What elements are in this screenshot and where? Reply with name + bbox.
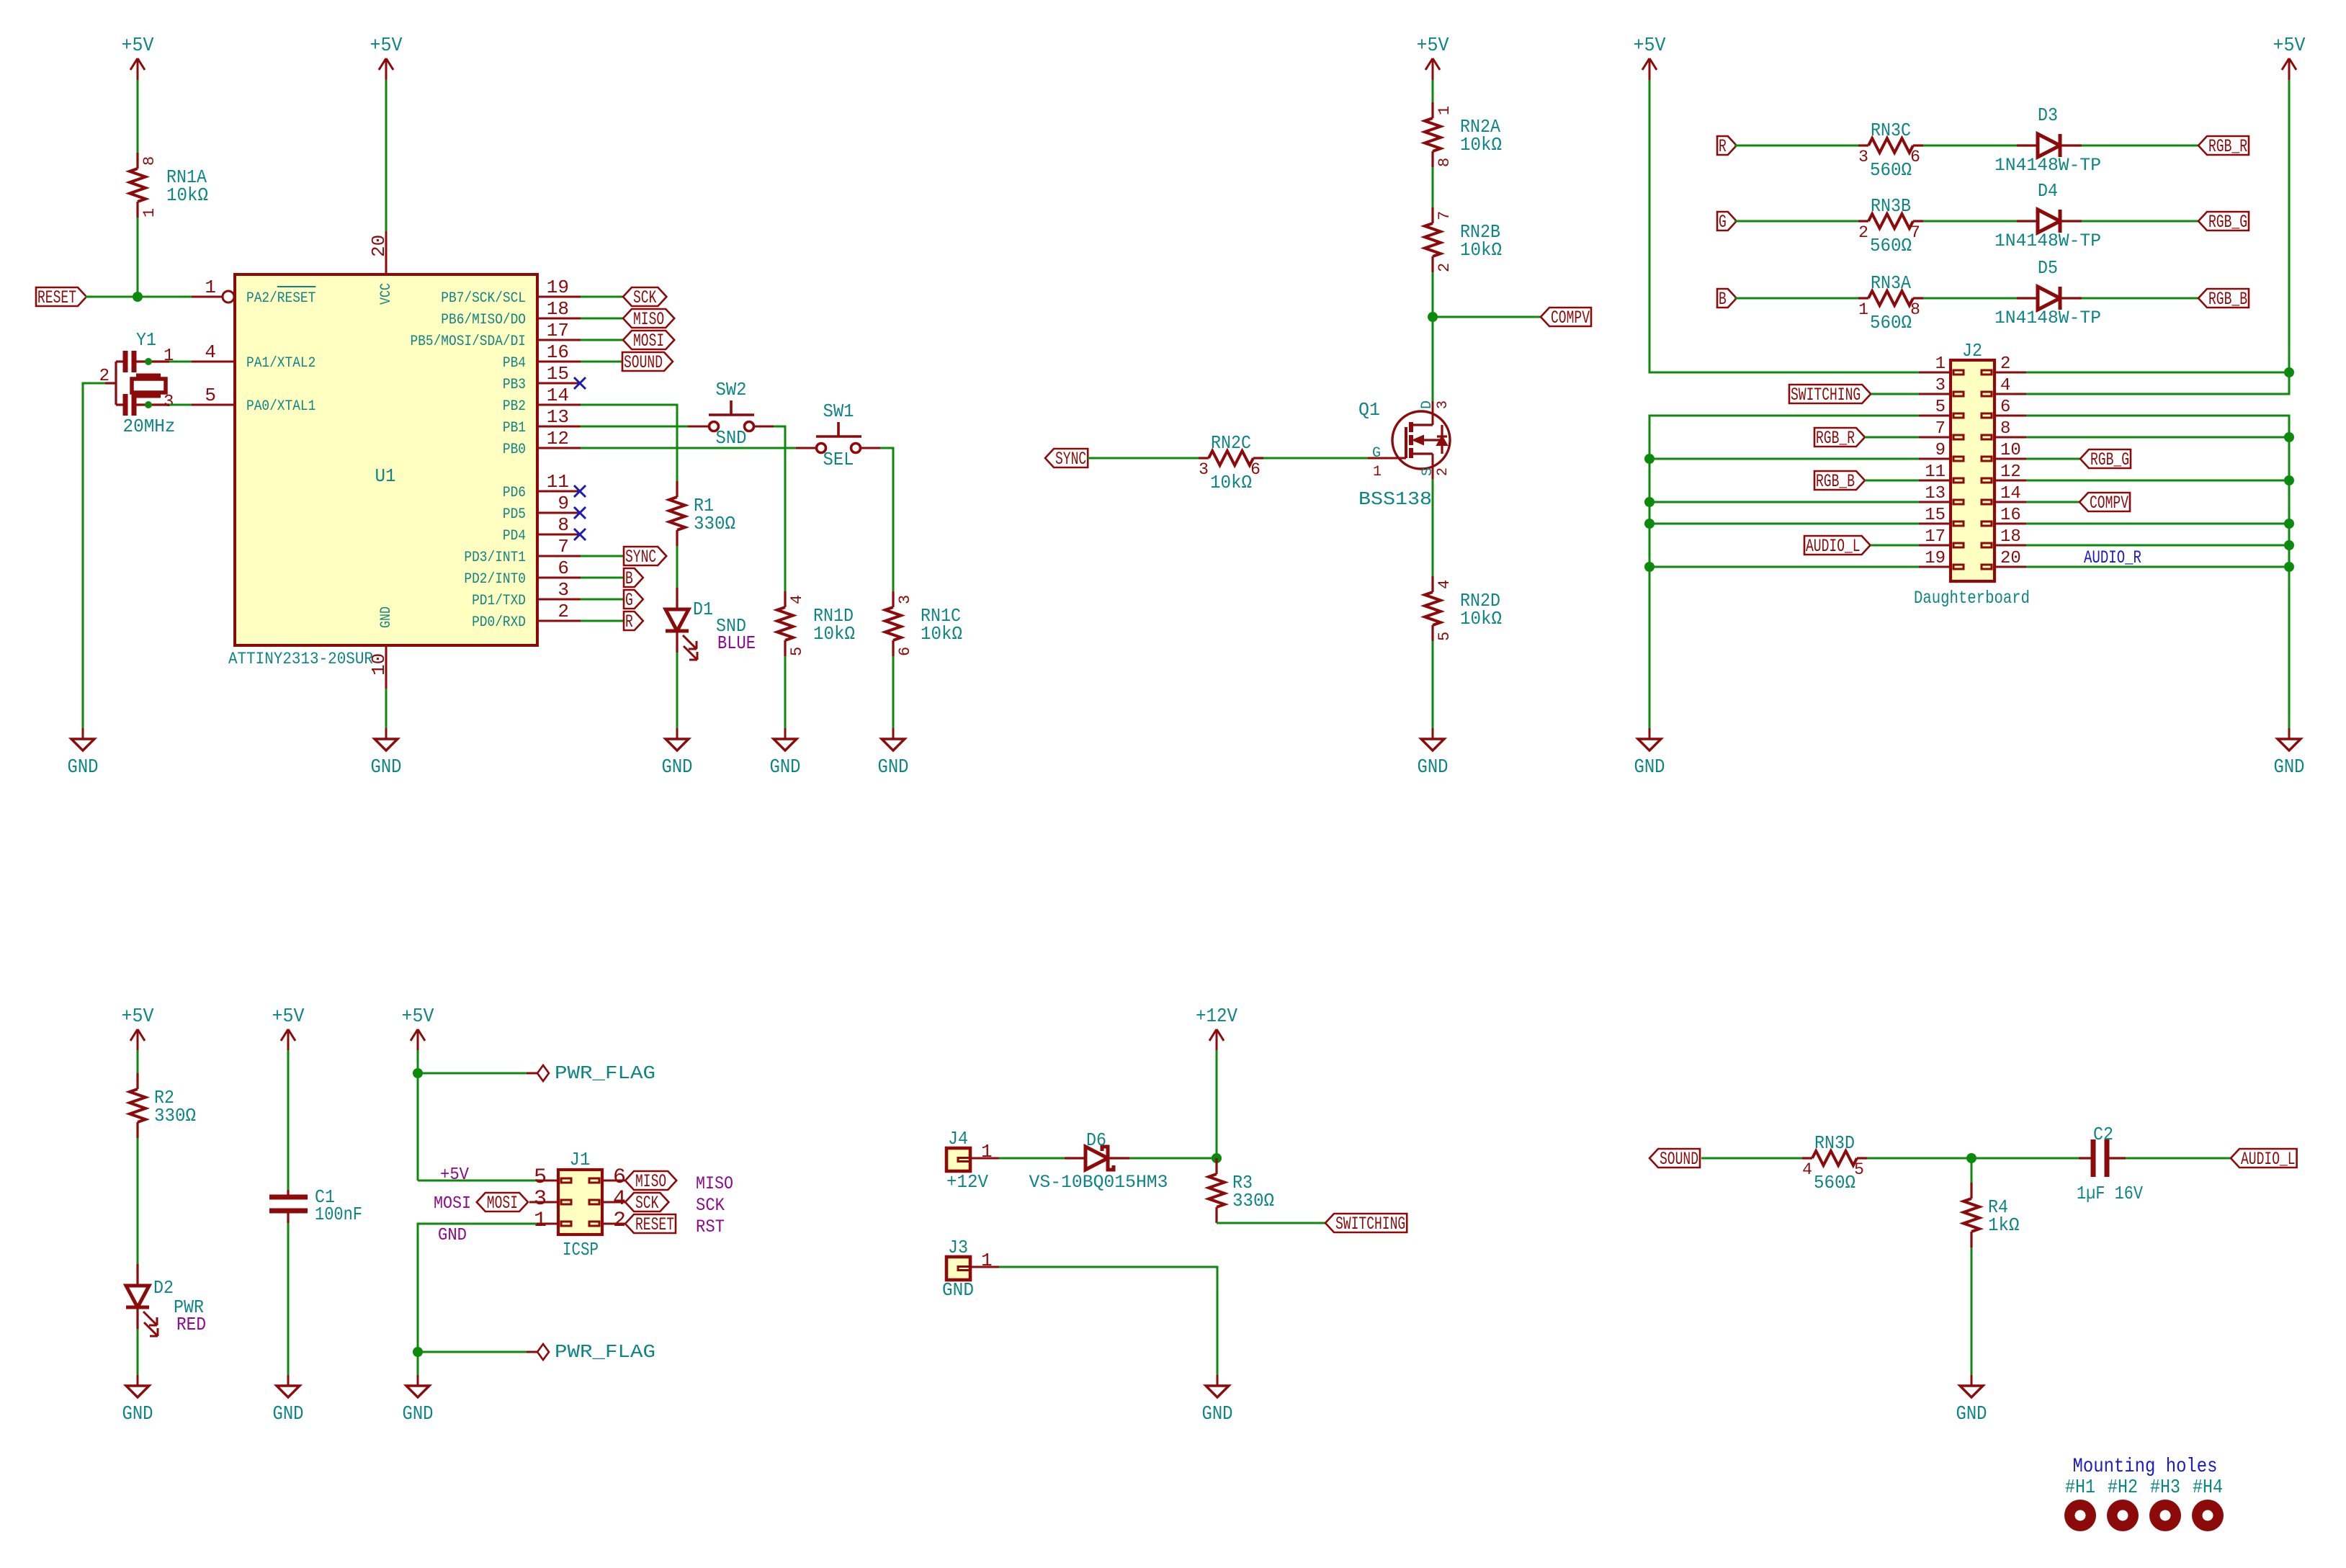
svg-text:3: 3	[1858, 148, 1868, 166]
svg-text:5: 5	[1436, 632, 1454, 641]
svg-text:+5V: +5V	[2273, 35, 2306, 57]
label COMPV	[1541, 308, 1591, 326]
svg-text:17: 17	[547, 320, 569, 341]
J2 pin 7	[1919, 436, 1951, 439]
U1 pin 15 PB3	[537, 382, 581, 385]
svg-text:U1: U1	[375, 465, 396, 487]
svg-text:4: 4	[788, 595, 806, 604]
svg-text:+12V: +12V	[1196, 1006, 1238, 1028]
svg-text:BSS138: BSS138	[1358, 488, 1432, 510]
capacitor C1 100nF	[287, 1190, 289, 1195]
wire to PWR_FLAG bottom	[418, 1351, 527, 1353]
svg-text:19: 19	[547, 277, 569, 298]
wire +12V to node	[1216, 1050, 1218, 1158]
wire Q1 source to RN2D	[1432, 479, 1434, 576]
svg-text:1N4148W-TP: 1N4148W-TP	[1994, 308, 2101, 328]
label SWITCHING	[1325, 1214, 1407, 1232]
ground	[137, 1375, 139, 1386]
svg-text:5: 5	[1854, 1160, 1864, 1179]
J2 pin 9	[1919, 458, 1951, 460]
label SOUND input	[1649, 1149, 1700, 1168]
svg-text:330Ω: 330Ω	[154, 1105, 196, 1126]
label B	[1717, 289, 1737, 308]
label MOSI at J1	[477, 1193, 528, 1211]
label R	[1717, 136, 1737, 155]
svg-text:10: 10	[2000, 441, 2021, 460]
svg-text:6: 6	[558, 557, 569, 579]
wire pin16 to bus	[2026, 523, 2289, 525]
svg-text:RN3C: RN3C	[1871, 120, 1911, 141]
wire PB2 down to R1	[581, 405, 677, 481]
svg-text:VCC: VCC	[378, 283, 395, 305]
wire crystal pin3 to U1 pin5	[169, 404, 192, 406]
U1 pin 19 PB7/SCK/SCL	[537, 296, 581, 298]
wire MISO	[581, 318, 623, 320]
label RGB_B	[2198, 289, 2249, 308]
ground	[2288, 728, 2291, 739]
svg-text:SYNC: SYNC	[1055, 449, 1086, 470]
wire D3 to RGB label	[2082, 145, 2198, 147]
svg-text:SCK: SCK	[633, 287, 656, 308]
svg-text:PD6: PD6	[503, 485, 526, 501]
svg-text:+5V: +5V	[402, 1006, 435, 1028]
svg-text:1: 1	[1373, 464, 1382, 480]
svg-text:D3: D3	[2038, 104, 2058, 126]
svg-text:RN3D: RN3D	[1814, 1132, 1855, 1154]
PWR_FLAG top	[537, 1065, 549, 1081]
svg-text:D6: D6	[1086, 1129, 1106, 1151]
wire RN2B to COMPV node	[1432, 272, 1434, 317]
svg-text:RGB_B: RGB_B	[1816, 471, 1855, 492]
svg-text:7: 7	[1935, 419, 1946, 439]
no-connect PD4	[574, 529, 586, 540]
label RESET at J1	[625, 1214, 676, 1233]
svg-text:3: 3	[1199, 460, 1209, 479]
svg-text:8: 8	[558, 514, 569, 536]
svg-text:RN3A: RN3A	[1871, 272, 1911, 294]
no-connect PD6	[574, 485, 586, 497]
wire C1 to GND	[287, 1223, 290, 1383]
ground	[385, 728, 388, 739]
svg-text:SEL: SEL	[823, 449, 854, 470]
wire +5V to C1	[287, 1050, 290, 1190]
svg-text:SOUND: SOUND	[1660, 1149, 1698, 1170]
ground	[1432, 728, 1434, 739]
wire J4 to D6	[999, 1157, 1065, 1160]
svg-text:5: 5	[788, 647, 806, 656]
ground	[417, 1375, 419, 1386]
connector J2 Daughterboard body	[1951, 360, 1994, 581]
wire +5V to RN1A	[137, 80, 139, 153]
J2 pin 2	[1994, 372, 2026, 374]
U1 pin 2 PD0/RXD	[537, 620, 581, 622]
svg-text:PB2: PB2	[503, 398, 526, 415]
svg-text:MOSI: MOSI	[633, 331, 664, 351]
wire COMPV	[1433, 316, 1541, 318]
svg-text:+5V: +5V	[1417, 35, 1450, 57]
svg-text:GND: GND	[378, 606, 395, 628]
wire SYNC to RN2C	[1088, 457, 1199, 460]
svg-text:GND: GND	[68, 757, 99, 779]
U1 pin 1 PA2/RESET	[192, 296, 222, 298]
J2 pin 12	[1994, 480, 2026, 482]
label RGB_R to pin7	[1814, 428, 1865, 447]
wire SOUND	[581, 361, 622, 363]
svg-text:PB6/MISO/DO: PB6/MISO/DO	[441, 312, 526, 328]
mounting hole H1	[2064, 1500, 2096, 1531]
svg-text:MISO: MISO	[633, 309, 664, 330]
label SYNC	[624, 547, 666, 565]
svg-text:D5: D5	[2038, 257, 2058, 279]
svg-text:GND: GND	[1634, 757, 1665, 779]
ground	[784, 728, 787, 739]
wire +5V to J1 pin5	[418, 1180, 537, 1182]
svg-text:RESET: RESET	[635, 1214, 674, 1235]
svg-text:PWR_FLAG: PWR_FLAG	[555, 1062, 655, 1084]
svg-text:PA1/XTAL2: PA1/XTAL2	[246, 355, 315, 372]
J2 pin 16	[1994, 523, 2026, 525]
svg-text:20MHz: 20MHz	[123, 416, 176, 437]
resistor R3 330	[1215, 1158, 1217, 1174]
svg-text:ATTINY2313-20SUR: ATTINY2313-20SUR	[228, 650, 373, 668]
svg-text:RGB_R: RGB_R	[2208, 136, 2247, 157]
svg-text:10kΩ: 10kΩ	[1460, 239, 1502, 261]
svg-text:2: 2	[2000, 354, 2010, 374]
svg-text:+12V: +12V	[946, 1171, 988, 1193]
U1 pin 10 GND	[385, 645, 388, 689]
J2 pin 14	[1994, 501, 2026, 503]
label MISO at J1	[625, 1171, 676, 1190]
U1 pin 18 PB6/MISO/DO	[537, 318, 581, 320]
svg-text:J2: J2	[1962, 340, 1982, 362]
svg-text:RST: RST	[696, 1217, 725, 1237]
svg-text:MISO: MISO	[635, 1171, 666, 1192]
wire RN1A to RESET node	[137, 218, 139, 297]
overline on RESET pin name	[277, 286, 316, 287]
resistor R4 1k	[1970, 1183, 1972, 1199]
J2 pin 3	[1919, 393, 1951, 395]
svg-text:GND: GND	[273, 1404, 304, 1425]
svg-text:ICSP: ICSP	[563, 1239, 599, 1260]
U1 pin 16 PB4	[537, 361, 581, 363]
U1 pin 20 VCC	[385, 231, 388, 274]
node PWR_FLAG bottom	[413, 1347, 423, 1357]
svg-text:RGB_G: RGB_G	[2208, 212, 2247, 233]
svg-text:RESET: RESET	[37, 287, 76, 308]
svg-text:7: 7	[1436, 211, 1454, 220]
connector J1 ICSP body	[558, 1170, 602, 1235]
svg-text:5: 5	[1935, 398, 1946, 417]
ground	[1217, 1375, 1219, 1386]
resistor RN2A 10k	[1431, 102, 1433, 118]
svg-text:1: 1	[1436, 106, 1454, 115]
svg-text:PD4: PD4	[503, 528, 526, 545]
svg-text:SW2: SW2	[716, 379, 747, 400]
svg-text:8: 8	[1910, 300, 1920, 319]
J2 pin 5	[1919, 415, 1951, 417]
label SYNC input	[1045, 449, 1088, 467]
svg-text:COMPV: COMPV	[1551, 308, 1590, 328]
svg-text:SWITCHING: SWITCHING	[1791, 385, 1861, 406]
svg-text:12: 12	[2000, 462, 2021, 482]
wire G	[581, 599, 624, 601]
svg-text:10kΩ: 10kΩ	[1210, 472, 1252, 493]
svg-text:10kΩ: 10kΩ	[813, 623, 855, 645]
svg-text:GND: GND	[122, 1404, 153, 1425]
svg-text:10kΩ: 10kΩ	[166, 184, 208, 206]
svg-text:RGB_B: RGB_B	[2208, 289, 2247, 310]
svg-text:#H3: #H3	[2150, 1477, 2180, 1499]
svg-text:GND: GND	[770, 757, 801, 779]
svg-text:PD1/TXD: PD1/TXD	[472, 593, 526, 609]
svg-text:J4: J4	[948, 1128, 968, 1150]
svg-text:PB4: PB4	[503, 355, 526, 372]
wire pin2 to bus	[2026, 372, 2289, 374]
svg-text:PD5: PD5	[503, 506, 526, 523]
svg-text:6: 6	[1910, 148, 1920, 166]
wire pin19 to bus	[1649, 566, 1919, 568]
label R	[624, 611, 643, 630]
ground	[676, 728, 679, 739]
J1 pin 5	[537, 1180, 558, 1182]
svg-text:17: 17	[1925, 527, 1946, 547]
wire pin8 to bus	[2026, 436, 2289, 439]
svg-text:B: B	[625, 568, 633, 589]
label RGB_R	[2198, 136, 2249, 155]
wire R2 to D2	[137, 1138, 139, 1264]
J1 pin 6	[602, 1180, 625, 1182]
svg-text:+5V: +5V	[1634, 35, 1667, 57]
ground	[287, 1375, 290, 1386]
transistor Q1 BSS138	[1392, 411, 1450, 469]
label MISO	[623, 309, 674, 328]
wire RN3D to node	[1867, 1157, 1971, 1160]
node junction RESET	[133, 292, 143, 302]
svg-text:5: 5	[534, 1165, 547, 1190]
U1 ATTINY2313-20SUR body	[235, 274, 537, 645]
ground	[892, 728, 895, 739]
wire PB1 to SW2	[581, 426, 688, 428]
wire RN2C to Q1 gate	[1263, 457, 1368, 460]
svg-text:13: 13	[547, 406, 569, 428]
svg-text:3: 3	[1935, 376, 1946, 395]
J2 pin 18	[1994, 545, 2026, 547]
U1 pin 7 PD3/INT1	[537, 555, 581, 557]
svg-text:1: 1	[1935, 354, 1946, 374]
svg-text:+5V: +5V	[272, 1006, 305, 1028]
mounting hole H2	[2107, 1500, 2139, 1531]
svg-text:PWR_FLAG: PWR_FLAG	[555, 1341, 655, 1363]
wire PB0 to SW1	[581, 447, 796, 449]
svg-text:3: 3	[558, 579, 569, 601]
wire J3 to GND	[999, 1267, 1217, 1383]
U1 pin 14 PB2	[537, 404, 581, 406]
U1 pin 4 PA1/XTAL2	[192, 361, 235, 363]
svg-text:RN3B: RN3B	[1871, 195, 1911, 217]
wire R	[581, 620, 624, 622]
svg-text:5: 5	[205, 385, 216, 406]
svg-text:10: 10	[368, 653, 390, 676]
label SOUND	[622, 352, 673, 371]
svg-text:SWITCHING: SWITCHING	[1335, 1214, 1405, 1235]
J2 pin 6	[1994, 415, 2026, 417]
J2 pin 1	[1919, 372, 1951, 374]
wire RN3C to D3	[1923, 145, 2017, 147]
svg-text:G: G	[1719, 212, 1727, 233]
svg-text:1: 1	[1858, 300, 1868, 319]
wire pin15 to bus	[1649, 523, 1919, 525]
svg-text:MOSI: MOSI	[434, 1194, 471, 1214]
wire +5V bus right to pin4	[2026, 80, 2289, 394]
svg-text:14: 14	[2000, 484, 2021, 503]
svg-text:PB1: PB1	[503, 420, 526, 436]
svg-text:560Ω: 560Ω	[1870, 159, 1912, 181]
svg-text:PD0/RXD: PD0/RXD	[472, 614, 526, 631]
wire node to C2	[1971, 1157, 2079, 1160]
svg-text:GND: GND	[1202, 1404, 1233, 1425]
U1 pin 6 PD2/INT0	[537, 577, 581, 579]
wire SWITCHING to pin3	[1871, 393, 1919, 395]
svg-text:9: 9	[558, 493, 569, 514]
svg-text:MOSI: MOSI	[487, 1193, 518, 1214]
resistor RN3A 560	[1858, 297, 1868, 299]
J1 pin 4	[602, 1201, 625, 1204]
svg-text:B: B	[1719, 289, 1727, 310]
label MOSI	[623, 331, 674, 349]
svg-text:Q1: Q1	[1358, 399, 1380, 421]
svg-text:AUDIO_R: AUDIO_R	[2084, 547, 2141, 568]
svg-text:PB7/SCK/SCL: PB7/SCK/SCL	[441, 290, 526, 307]
wire MOSI	[581, 339, 623, 341]
diode D3 1N4148W-TP	[2017, 144, 2038, 146]
U1 pin 12 PB0	[537, 447, 581, 449]
svg-text:#H2: #H2	[2108, 1477, 2138, 1499]
ground	[82, 728, 84, 739]
label RGB_G	[2198, 212, 2249, 230]
svg-text:1: 1	[534, 1209, 547, 1233]
svg-text:14: 14	[547, 385, 569, 406]
J2 pin 10	[1994, 458, 2026, 460]
PWR_FLAG bottom	[537, 1344, 549, 1360]
svg-text:15: 15	[547, 363, 569, 385]
label COMPV pin14	[2026, 501, 2079, 503]
wire C2 to AUDIO_L	[2126, 1157, 2231, 1160]
U1 pin 17 PB5/MOSI/SDA/DI	[537, 339, 581, 341]
J2 pin 20	[1994, 566, 2026, 568]
svg-text:GND: GND	[371, 757, 402, 779]
wire GND bus right pin6	[2026, 416, 2289, 736]
svg-text:6: 6	[896, 647, 914, 656]
wire pin13 to bus	[1649, 501, 1919, 503]
svg-text:4: 4	[613, 1187, 626, 1211]
svg-text:6: 6	[1250, 460, 1261, 479]
svg-text:3: 3	[164, 393, 174, 412]
wire SW1 to RN1C	[880, 448, 893, 591]
svg-text:GND: GND	[942, 1279, 974, 1301]
svg-text:PB3: PB3	[503, 377, 526, 393]
svg-text:GND: GND	[878, 757, 909, 779]
node +12V junction	[1212, 1153, 1222, 1163]
wire RN3A to D5	[1923, 297, 2017, 300]
svg-text:7: 7	[558, 536, 569, 557]
wire SYNC	[581, 555, 624, 557]
connector J4 +12V	[946, 1148, 970, 1171]
resistor RN1A 10k	[136, 153, 138, 169]
diode D5 1N4148W-TP	[2017, 297, 2038, 299]
svg-text:RN2C: RN2C	[1211, 432, 1251, 454]
svg-text:6: 6	[613, 1165, 626, 1190]
svg-text:560Ω: 560Ω	[1814, 1172, 1855, 1193]
svg-text:PA0/XTAL1: PA0/XTAL1	[246, 398, 315, 415]
svg-text:PB5/MOSI/SDA/DI: PB5/MOSI/SDA/DI	[411, 333, 527, 350]
label SCK	[623, 287, 666, 306]
svg-text:2: 2	[613, 1209, 626, 1233]
svg-text:16: 16	[2000, 506, 2021, 525]
resistor RN3D 560	[1802, 1157, 1812, 1159]
capacitor C2 1uF 16V	[2079, 1157, 2091, 1159]
wire pin18 to bus	[2026, 545, 2289, 547]
no-connect PB3	[574, 377, 586, 389]
wire +5V to RN2A	[1432, 80, 1434, 102]
resistor RN3C 560	[1858, 144, 1868, 146]
diode D6 VS-10BQ015HM3 schottky	[1065, 1157, 1085, 1159]
svg-text:G: G	[1372, 445, 1381, 462]
svg-text:RED: RED	[176, 1314, 206, 1335]
label RGB_G pin10	[2026, 458, 2080, 460]
svg-text:D4: D4	[2038, 180, 2058, 202]
J1 pin 2	[602, 1223, 625, 1225]
svg-text:AUDIO_L: AUDIO_L	[2241, 1149, 2296, 1170]
mounting hole H4	[2192, 1500, 2224, 1531]
svg-text:2: 2	[558, 601, 569, 622]
wire RESET label to U1	[85, 296, 192, 298]
wire RN2A to RN2B	[1432, 167, 1434, 207]
svg-text:GND: GND	[403, 1404, 434, 1425]
svg-text:100nF: 100nF	[315, 1204, 362, 1225]
label SCK at J1	[625, 1193, 668, 1211]
svg-text:3: 3	[896, 595, 914, 604]
svg-text:MISO: MISO	[696, 1173, 733, 1194]
resistor RN1D 10k	[784, 591, 786, 607]
svg-text:560Ω: 560Ω	[1870, 312, 1912, 333]
svg-text:Y1: Y1	[136, 329, 156, 351]
resistor RN2D 10k	[1431, 576, 1433, 592]
U1 pin 11 PD6	[537, 490, 581, 493]
svg-text:6: 6	[2000, 398, 2010, 417]
svg-text:4: 4	[205, 341, 216, 363]
svg-text:7: 7	[1910, 223, 1920, 242]
wire SW2 to RN1D	[774, 426, 785, 591]
label AUDIO_L to pin17	[1804, 536, 1871, 555]
node PWR_FLAG top	[413, 1068, 423, 1078]
J2 pin 4	[1994, 393, 2026, 395]
resistor R2 330	[136, 1073, 138, 1089]
svg-text:11: 11	[547, 471, 569, 493]
ground	[1971, 1375, 1973, 1386]
svg-text:3: 3	[534, 1187, 547, 1211]
svg-text:SYNC: SYNC	[625, 547, 656, 568]
wire +5V bus to J2 pin1	[1649, 80, 1919, 372]
wire node to Q1 drain	[1432, 317, 1434, 401]
U1 pin 5 PA0/XTAL1	[192, 404, 235, 406]
wire pin9 to bus	[1649, 458, 1919, 460]
svg-text:10kΩ: 10kΩ	[1460, 608, 1502, 630]
wire RN3B to D4	[1923, 220, 2017, 223]
wire node to R4	[1971, 1158, 1973, 1183]
svg-text:GND: GND	[438, 1226, 467, 1245]
svg-text:10kΩ: 10kΩ	[1460, 134, 1502, 156]
svg-text:R: R	[1719, 136, 1727, 157]
